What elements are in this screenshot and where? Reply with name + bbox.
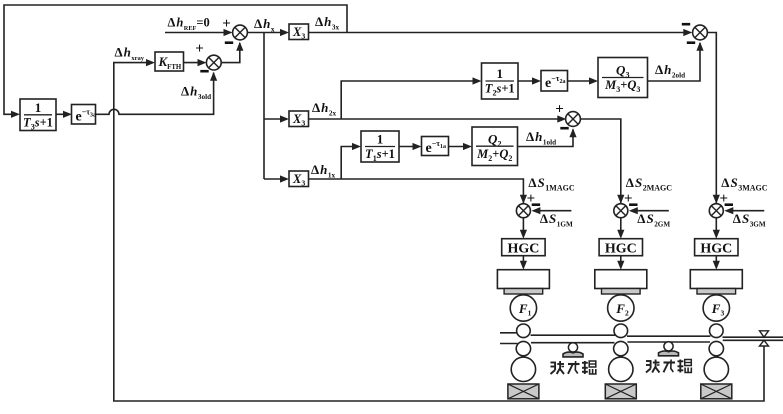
wire T2 to delay2 (518, 77, 541, 84)
sign minus at B3 right (725, 203, 733, 206)
svg-text:+: + (222, 16, 231, 32)
delay block e^-tau3a (72, 105, 96, 125)
wire HGC3 to screw-down (713, 256, 720, 270)
wire Q3 to J1R bottom (648, 42, 704, 81)
delay block e^-tau2a (541, 71, 568, 92)
label dh2old (655, 62, 685, 80)
wire J3 output down to B2 (580, 119, 624, 204)
summing junction B3 (709, 204, 723, 218)
delay block e^-tau1a (422, 137, 449, 157)
label dh3x (315, 14, 339, 32)
wire delay2 to Q3 block (568, 77, 599, 84)
label dhREF=0 (168, 16, 210, 33)
wire T1 to delay1 (399, 143, 422, 150)
wire HGC2 to screw-down (617, 256, 624, 270)
sign minus at J2 bottom (200, 70, 208, 73)
wire node to X3mid (264, 115, 289, 122)
wire gauge feedback (bottom line up to K_FTH) (114, 59, 764, 401)
svg-text:HGC: HGC (700, 241, 732, 256)
wire HGC1 to screw-down (520, 256, 527, 270)
summing junction J1 (233, 25, 248, 40)
label dS2MAGC (626, 175, 672, 193)
wire delay to sum J2 with hop over feedback line (96, 72, 218, 115)
wire X3top to J1R (long top wire) (309, 29, 693, 36)
HGC block 3 (695, 239, 738, 257)
wire dS2GM into B2 (629, 207, 669, 214)
wire K_FTH to sum J2 (184, 59, 207, 66)
label dh_x (254, 16, 275, 34)
stand 3 backup roll (704, 357, 728, 381)
svg-text:HGC: HGC (605, 241, 637, 256)
gain block Q2/(M2+Q2) (472, 127, 518, 166)
summing junction B1 (516, 204, 530, 218)
stand 1 base block (508, 384, 539, 399)
stand 3 screw-down block (690, 270, 742, 294)
svg-text:+: + (195, 41, 204, 57)
label tension-roller text 1 (551, 361, 596, 374)
svg-text:HGC: HGC (507, 241, 539, 256)
svg-text:1: 1 (35, 100, 42, 115)
wire top feedback (from node A up-left-down to filter input) (4, 5, 347, 118)
summing junction J2 (206, 55, 221, 70)
stand 1 backup roll (511, 357, 535, 381)
sign minus at B1 right (532, 203, 540, 206)
wire dS3GM into B3 (724, 207, 764, 214)
wire X3bot to B1 (309, 179, 528, 204)
wire node to X3bot (264, 175, 289, 182)
stand 3 base block (701, 384, 732, 399)
wire J1 to X3top with branch node at x264 (247, 29, 289, 179)
label dh1old (526, 129, 556, 147)
sign plus at J3 left (555, 102, 564, 118)
svg-text:T1s+1: T1s+1 (365, 147, 395, 163)
stand 2 base block (605, 384, 636, 399)
label dh2x (312, 100, 336, 118)
sign minus at J1R bottom (687, 41, 695, 44)
label dS3MAGC (721, 175, 767, 193)
wire B2 to HGC (617, 218, 624, 239)
label dh3old (181, 84, 211, 102)
sign minus at B2 right (629, 203, 637, 206)
label dS1GM (540, 211, 573, 229)
stand 2 lower work roll (614, 341, 628, 355)
sign minus at J1R left (682, 23, 690, 26)
svg-text:1: 1 (377, 132, 384, 147)
stand 3 lower work roll (709, 341, 723, 355)
wire delay1 to Q2 block (449, 143, 473, 150)
transfer-function block 1/(T3s+1) (20, 99, 56, 131)
summing junction B2 (614, 204, 628, 218)
svg-text:1: 1 (497, 66, 504, 81)
stand 1 lower work roll (516, 341, 530, 355)
sign minus at J1 bottom (225, 41, 233, 44)
strip segment stands 2-3 (627, 336, 710, 342)
transfer-function block 1/(T2s+1) (482, 63, 519, 99)
stand 3 upper work roll (710, 324, 724, 338)
svg-text:M3+Q3: M3+Q3 (604, 78, 640, 94)
stand 1 screw-down block (497, 270, 549, 294)
thickness gauge (X-ray) triangles (760, 331, 769, 346)
sign minus at J3 bottom (560, 127, 568, 130)
svg-text:T2s+1: T2s+1 (485, 82, 515, 98)
multiplier block X3 top (289, 24, 309, 41)
label dh_xray (115, 45, 145, 63)
wire J1R output down to B3 (707, 33, 720, 204)
sign plus at B2 top (624, 191, 633, 207)
strip segment stands 1-2 (531, 335, 615, 343)
HGC block 2 (599, 239, 642, 257)
summing junction J3 (566, 112, 581, 127)
stand 1 upper work roll (517, 324, 531, 338)
label dS3GM (733, 211, 766, 229)
sign plus at B1 top (527, 191, 536, 207)
gain block K_FTH (155, 52, 184, 71)
wire X3mid to J3 with branch at x341 (309, 115, 567, 122)
wire dS1GM into B1 (531, 207, 571, 214)
wire J2 to J1 (221, 42, 243, 63)
HGC block 1 (502, 239, 545, 257)
load cell F1 (510, 295, 536, 321)
strip exit segment (723, 337, 783, 340)
wire filter to delay (56, 111, 72, 118)
summing junction J1R top right (693, 25, 708, 40)
svg-text:M2+Q2: M2+Q2 (476, 147, 512, 163)
multiplier block X3 bottom (289, 171, 309, 188)
wire Q2 to J3 bottom (518, 128, 577, 146)
stand 2 screw-down block (595, 270, 647, 294)
tension roller 1 (between stands 1-2) (563, 343, 583, 357)
sign plus above K_FTH output (195, 41, 204, 57)
wire branch dh2x up into T2 block (341, 77, 481, 119)
wire reference into J1 (165, 29, 233, 36)
stand 2 backup roll (609, 357, 633, 381)
wire B1 to HGC (520, 218, 527, 239)
transfer-function block 1/(T1s+1) (361, 131, 399, 163)
stand 2 upper work roll (614, 324, 628, 338)
label dh1x (311, 162, 335, 180)
tension roller 2 (between stands 2-3) (659, 342, 679, 356)
label dS1MAGC (528, 175, 574, 193)
sign plus at J1 left (222, 16, 231, 32)
wire branch dh1x up into T1 block (341, 143, 361, 179)
load cell F3 (703, 295, 729, 321)
label dS2GM (637, 211, 670, 229)
svg-text:+: + (555, 102, 564, 118)
multiplier block X3 mid (289, 111, 309, 128)
load cell F2 (608, 295, 634, 321)
gain block Q3/(M3+Q3) (598, 58, 648, 98)
wire B3 to HGC (713, 218, 720, 239)
svg-text:T3s+1: T3s+1 (23, 115, 53, 131)
sign plus at B3 top (720, 191, 729, 207)
strip entry segment (500, 333, 518, 344)
label tension-roller text 2 (646, 360, 691, 373)
